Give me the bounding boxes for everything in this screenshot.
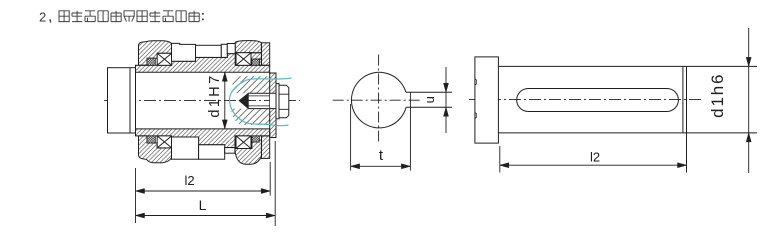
seal ring top-left	[147, 58, 155, 65]
svg-text:l2: l2	[590, 150, 600, 165]
dimension l2 left arrow	[500, 163, 509, 168]
dimension L left arrow	[136, 213, 145, 218]
pulley groove saddle block B top	[196, 45, 222, 57]
bearing ball top-left (square with X)	[157, 53, 172, 65]
bolt hole through plate (white)	[270, 94, 276, 109]
keyway flat edge / extension line for t	[409, 92, 411, 170]
dimension t left arrow	[351, 164, 360, 169]
dimension d1H7 top arrow	[222, 72, 227, 81]
bearing ball bottom-right (square with X)	[236, 136, 251, 149]
inner shaft section below bolt (hatched)	[232, 109, 270, 125]
dimension t right arrow	[401, 164, 410, 169]
dimension t line	[351, 165, 411, 167]
seal ring top-right	[252, 59, 259, 65]
shaft body right end face / l2 right extension	[686, 66, 688, 172]
svg-text:d1h6: d1h6	[708, 73, 727, 118]
keyway slot top line	[406, 91, 452, 93]
svg-text:d1H7: d1H7	[207, 73, 223, 117]
assembly horizontal centerline	[104, 100, 300, 102]
flange edge jog upper	[475, 79, 476, 85]
bolt cone tip (filled)	[239, 93, 248, 108]
pulley groove saddle block D top	[227, 44, 235, 54]
dimension l2 extension line left	[499, 146, 501, 173]
bearing end cap bottom (hatched)	[262, 136, 270, 159]
keyway slot (rounded)	[517, 89, 679, 112]
retaining end plate (hatched)	[270, 73, 276, 138]
dimension d1h6 top arrow	[746, 57, 751, 66]
pulley top-right rim block (hatched)	[235, 41, 261, 53]
svg-text:2: 2	[39, 10, 46, 25]
pulley groove saddle block B bottom	[199, 145, 225, 159]
dimension d1h6 bottom arrow	[746, 133, 751, 142]
dimension L right extension line	[274, 141, 276, 226]
pulley groove saddle block C top	[221, 44, 227, 57]
dimension l2/L shared left extension line	[135, 168, 137, 223]
dimension u bottom arrow	[444, 107, 449, 116]
seal ring bottom-right	[252, 136, 259, 142]
svg-text:L: L	[199, 197, 207, 213]
dimension l2 left arrow	[136, 189, 145, 194]
dimension L right arrow	[266, 213, 275, 218]
bolt thread inner lines	[246, 96, 270, 106]
flange edge jog lower	[475, 113, 476, 119]
dimension l2 right arrow	[261, 189, 270, 194]
seal ring bottom-left	[147, 136, 155, 143]
shaft-section horizontal centerline	[333, 99, 422, 101]
dimension l2 line	[136, 190, 271, 192]
bolt shank outer lines	[248, 93, 276, 108]
hollow shaft horizontal centerline	[469, 99, 701, 101]
svg-text:u: u	[422, 96, 437, 103]
shaft body top edge + d1h6 top extension line	[498, 65, 757, 67]
bolt head	[279, 85, 289, 118]
dimension u top arrow	[444, 83, 449, 92]
pulley left housing top (hatched)	[139, 41, 172, 66]
shaft section circle (arc with keyway gap)	[351, 72, 406, 128]
sleeve bottom wall (hatched)	[136, 129, 270, 148]
pulley bottom-right rim block (hatched, curved rim)	[235, 140, 262, 164]
sleeve top wall (hatched)	[136, 54, 270, 73]
shaft end chamfer line	[682, 66, 684, 132]
bearing ball top-right (square with X)	[236, 53, 251, 66]
shaft flange	[475, 57, 499, 143]
bearing end cap top (hatched)	[262, 43, 270, 66]
svg-text:t: t	[379, 147, 384, 164]
dimension t extension line left	[350, 104, 352, 171]
left shaft stub	[108, 68, 136, 133]
dimension L line	[136, 215, 276, 217]
pulley groove saddle block A bottom	[172, 137, 199, 159]
dimension l2 right extension line	[269, 162, 271, 196]
bolt head chamfer lines	[279, 94, 289, 109]
dimension d1H7 bottom arrow	[222, 120, 227, 129]
pulley left housing bottom (hatched)	[139, 136, 172, 163]
bolt washer	[276, 84, 279, 119]
dimension l2 line	[500, 164, 687, 166]
shaft body bottom edge + d1h6 bottom extension line	[498, 132, 757, 134]
pulley groove saddle block C bottom	[225, 148, 235, 154]
dimension u line vertical	[445, 67, 447, 133]
inner shaft section above bolt (hatched)	[231, 76, 269, 93]
bearing ball bottom-left (square with X)	[157, 136, 172, 148]
dimension d1H7 line vertical	[224, 72, 226, 129]
svg-text:l2: l2	[184, 173, 194, 188]
partial-section break line (cyan)	[229, 78, 291, 126]
pulley groove saddle block A top	[172, 43, 196, 61]
shaft-section vertical centerline	[378, 55, 380, 144]
keyway slot bottom line	[406, 106, 452, 108]
stub step line	[129, 68, 131, 133]
dimension d1h6 line vertical	[748, 28, 750, 173]
dimension l2 right arrow	[678, 163, 687, 168]
